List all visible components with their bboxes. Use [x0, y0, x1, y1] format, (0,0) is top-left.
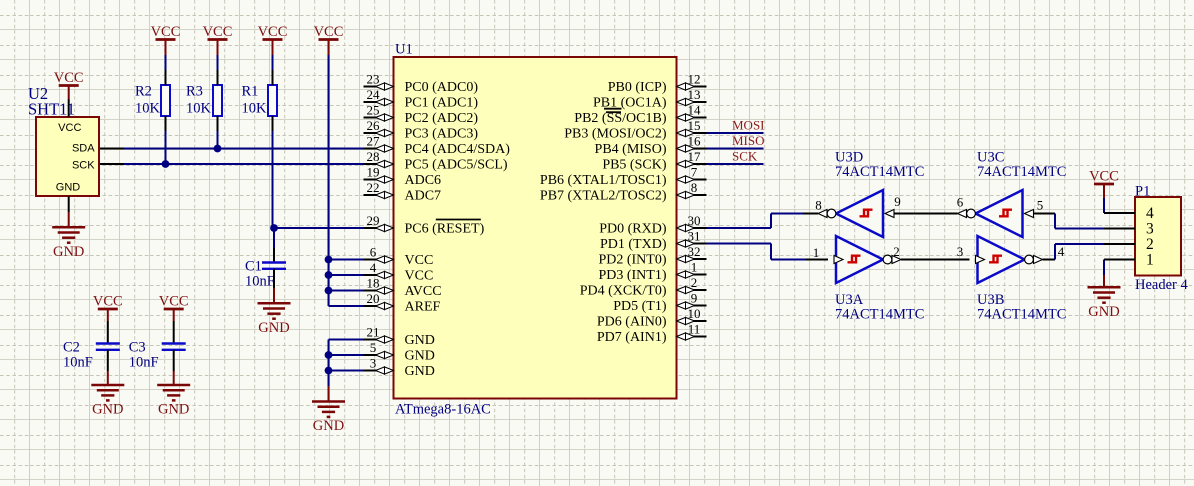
- svg-text:PD7 (AIN1): PD7 (AIN1): [597, 330, 667, 345]
- svg-text:1: 1: [1146, 252, 1154, 269]
- svg-text:11: 11: [688, 322, 701, 337]
- svg-text:PD2 (INT0): PD2 (INT0): [598, 253, 666, 268]
- svg-text:21: 21: [367, 325, 380, 340]
- svg-text:GND: GND: [56, 182, 81, 194]
- svg-text:PB0 (ICP): PB0 (ICP): [608, 80, 667, 95]
- svg-text:74ACT14MTC: 74ACT14MTC: [977, 164, 1066, 180]
- svg-text:PC6 (RESET): PC6 (RESET): [405, 222, 485, 237]
- svg-text:ADC6: ADC6: [405, 173, 442, 188]
- svg-text:VCC: VCC: [54, 70, 84, 86]
- svg-text:8: 8: [815, 198, 822, 213]
- svg-text:10K: 10K: [186, 101, 212, 117]
- svg-text:C2: C2: [63, 340, 80, 356]
- svg-text:R3: R3: [186, 84, 203, 100]
- svg-text:AVCC: AVCC: [405, 284, 442, 299]
- svg-text:R1: R1: [242, 84, 259, 100]
- svg-text:VCC: VCC: [405, 269, 434, 284]
- svg-text:PC1 (ADC1): PC1 (ADC1): [405, 96, 479, 111]
- svg-text:PB4 (MISO): PB4 (MISO): [595, 142, 667, 157]
- svg-text:SCK: SCK: [732, 149, 758, 164]
- svg-text:GND: GND: [158, 402, 189, 418]
- svg-text:24: 24: [367, 87, 381, 102]
- svg-text:1: 1: [691, 260, 698, 275]
- svg-text:17: 17: [688, 149, 702, 164]
- svg-text:VCC: VCC: [58, 122, 81, 134]
- svg-text:10nF: 10nF: [245, 274, 275, 290]
- svg-text:VCC: VCC: [314, 24, 344, 40]
- svg-text:VCC: VCC: [1089, 169, 1119, 185]
- svg-text:16: 16: [688, 134, 702, 149]
- svg-text:PB2 (SS/OC1B): PB2 (SS/OC1B): [574, 111, 667, 126]
- svg-text:29: 29: [367, 213, 380, 228]
- svg-text:74ACT14MTC: 74ACT14MTC: [977, 307, 1066, 323]
- svg-text:6: 6: [370, 245, 377, 260]
- svg-text:4: 4: [1146, 205, 1154, 222]
- svg-text:4: 4: [370, 260, 377, 275]
- svg-text:30: 30: [688, 213, 701, 228]
- svg-text:12: 12: [688, 72, 701, 87]
- svg-text:13: 13: [688, 87, 701, 102]
- svg-text:AREF: AREF: [405, 300, 441, 315]
- svg-text:3: 3: [370, 356, 377, 371]
- svg-text:U1: U1: [395, 42, 413, 58]
- svg-text:GND: GND: [405, 333, 435, 348]
- svg-text:GND: GND: [53, 244, 84, 260]
- svg-text:10K: 10K: [135, 101, 161, 117]
- svg-text:PD3 (INT1): PD3 (INT1): [598, 268, 666, 283]
- svg-text:3: 3: [957, 244, 964, 259]
- svg-text:Header 4: Header 4: [1135, 277, 1188, 293]
- svg-text:MOSI: MOSI: [732, 118, 765, 133]
- svg-text:GND: GND: [405, 349, 435, 364]
- svg-text:PD5 (T1): PD5 (T1): [613, 299, 667, 314]
- svg-text:3: 3: [1146, 221, 1154, 238]
- svg-text:15: 15: [688, 118, 701, 133]
- svg-text:PC4 (ADC4/SDA): PC4 (ADC4/SDA): [405, 142, 511, 157]
- svg-text:2: 2: [893, 244, 900, 259]
- svg-text:PD1 (TXD): PD1 (TXD): [600, 237, 667, 252]
- svg-text:10nF: 10nF: [129, 355, 159, 371]
- svg-text:GND: GND: [92, 402, 123, 418]
- svg-text:74ACT14MTC: 74ACT14MTC: [835, 307, 924, 323]
- svg-text:PD6 (AIN0): PD6 (AIN0): [597, 315, 667, 330]
- svg-text:C1: C1: [245, 259, 262, 275]
- svg-text:10: 10: [688, 306, 701, 321]
- svg-text:PC0 (ADC0): PC0 (ADC0): [405, 80, 479, 95]
- svg-text:VCC: VCC: [159, 294, 189, 310]
- svg-text:5: 5: [370, 340, 377, 355]
- svg-text:R2: R2: [135, 84, 152, 100]
- svg-text:9: 9: [691, 291, 698, 306]
- svg-text:VCC: VCC: [93, 294, 123, 310]
- svg-text:6: 6: [957, 195, 964, 210]
- svg-text:SCK: SCK: [72, 160, 95, 172]
- svg-text:VCC: VCC: [203, 24, 233, 40]
- svg-text:PD4 (XCK/T0): PD4 (XCK/T0): [580, 284, 667, 299]
- svg-text:10nF: 10nF: [63, 355, 93, 371]
- svg-text:PC5 (ADC5/SCL): PC5 (ADC5/SCL): [405, 158, 508, 173]
- svg-text:ATmega8-16AC: ATmega8-16AC: [395, 402, 491, 418]
- svg-text:GND: GND: [258, 320, 289, 336]
- svg-text:VCC: VCC: [405, 253, 434, 268]
- svg-text:MISO: MISO: [732, 133, 765, 148]
- svg-text:VCC: VCC: [258, 24, 288, 40]
- svg-text:PD0 (RXD): PD0 (RXD): [599, 222, 667, 237]
- svg-text:SDA: SDA: [72, 143, 95, 155]
- svg-text:PB3 (MOSI/OC2): PB3 (MOSI/OC2): [564, 127, 667, 142]
- svg-text:74ACT14MTC: 74ACT14MTC: [835, 164, 924, 180]
- svg-text:9: 9: [894, 194, 901, 209]
- svg-text:PB5 (SCK): PB5 (SCK): [602, 158, 667, 173]
- svg-text:GND: GND: [313, 418, 344, 434]
- svg-text:PC3 (ADC3): PC3 (ADC3): [405, 127, 479, 142]
- svg-text:8: 8: [691, 180, 698, 195]
- svg-text:ADC7: ADC7: [405, 189, 442, 204]
- svg-text:7: 7: [691, 165, 698, 180]
- svg-text:PB6 (XTAL1/TOSC1): PB6 (XTAL1/TOSC1): [540, 173, 667, 188]
- svg-text:GND: GND: [1088, 304, 1119, 320]
- svg-text:5: 5: [1037, 198, 1044, 213]
- svg-text:26: 26: [367, 118, 381, 133]
- svg-text:14: 14: [688, 103, 702, 118]
- svg-text:32: 32: [688, 244, 701, 259]
- svg-text:31: 31: [688, 229, 701, 244]
- svg-text:22: 22: [367, 180, 380, 195]
- svg-text:18: 18: [367, 276, 380, 291]
- svg-text:20: 20: [367, 291, 380, 306]
- svg-text:10K: 10K: [242, 101, 268, 117]
- svg-text:1: 1: [813, 245, 820, 260]
- svg-text:P1: P1: [1135, 184, 1150, 200]
- svg-text:19: 19: [367, 165, 380, 180]
- svg-text:27: 27: [367, 134, 381, 149]
- svg-text:PC2 (ADC2): PC2 (ADC2): [405, 111, 479, 126]
- svg-text:28: 28: [367, 149, 380, 164]
- svg-text:4: 4: [1058, 244, 1065, 259]
- svg-text:PB7 (XTAL2/TOSC2): PB7 (XTAL2/TOSC2): [540, 189, 667, 204]
- svg-text:C3: C3: [129, 340, 146, 356]
- svg-text:23: 23: [367, 72, 380, 87]
- svg-text:GND: GND: [405, 364, 435, 379]
- svg-text:VCC: VCC: [151, 24, 181, 40]
- svg-text:25: 25: [367, 103, 380, 118]
- svg-text:2: 2: [1146, 236, 1154, 253]
- svg-text:2: 2: [691, 275, 698, 290]
